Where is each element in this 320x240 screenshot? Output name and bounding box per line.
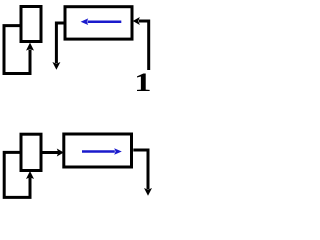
block B1 (large rectangle, top)	[65, 7, 132, 39]
wire: feedback loop of S1 (left, down, right)	[4, 26, 30, 74]
arrowhead right into B2 left edge	[57, 149, 64, 157]
arrowhead up into S2 bottom	[26, 171, 34, 179]
wire: output of B2 right side going down	[133, 150, 148, 189]
wire: input 1 into right side of B1	[139, 21, 149, 70]
wire: connector S2 to B2	[43, 151, 59, 154]
arrowhead up into S1 bottom	[26, 43, 34, 51]
blue arrow pointing right inside B2	[82, 150, 115, 153]
label 1	[134, 68, 151, 97]
arrowhead left into B1 right edge	[133, 17, 140, 25]
wire: feedback loop of S2	[4, 152, 30, 197]
block B2 (large rectangle, bottom)	[64, 134, 132, 167]
arrowhead down (output of B2)	[144, 188, 152, 196]
wire: output of B1 left side going down	[56, 23, 63, 63]
blue arrow pointing left inside B1	[88, 20, 122, 23]
arrowhead down (output of B1)	[52, 62, 60, 70]
block S1 (small tall rectangle, top-left)	[21, 7, 41, 42]
block S2 (small tall rectangle, bottom-left)	[21, 134, 41, 170]
svg-text:1: 1	[134, 68, 151, 97]
